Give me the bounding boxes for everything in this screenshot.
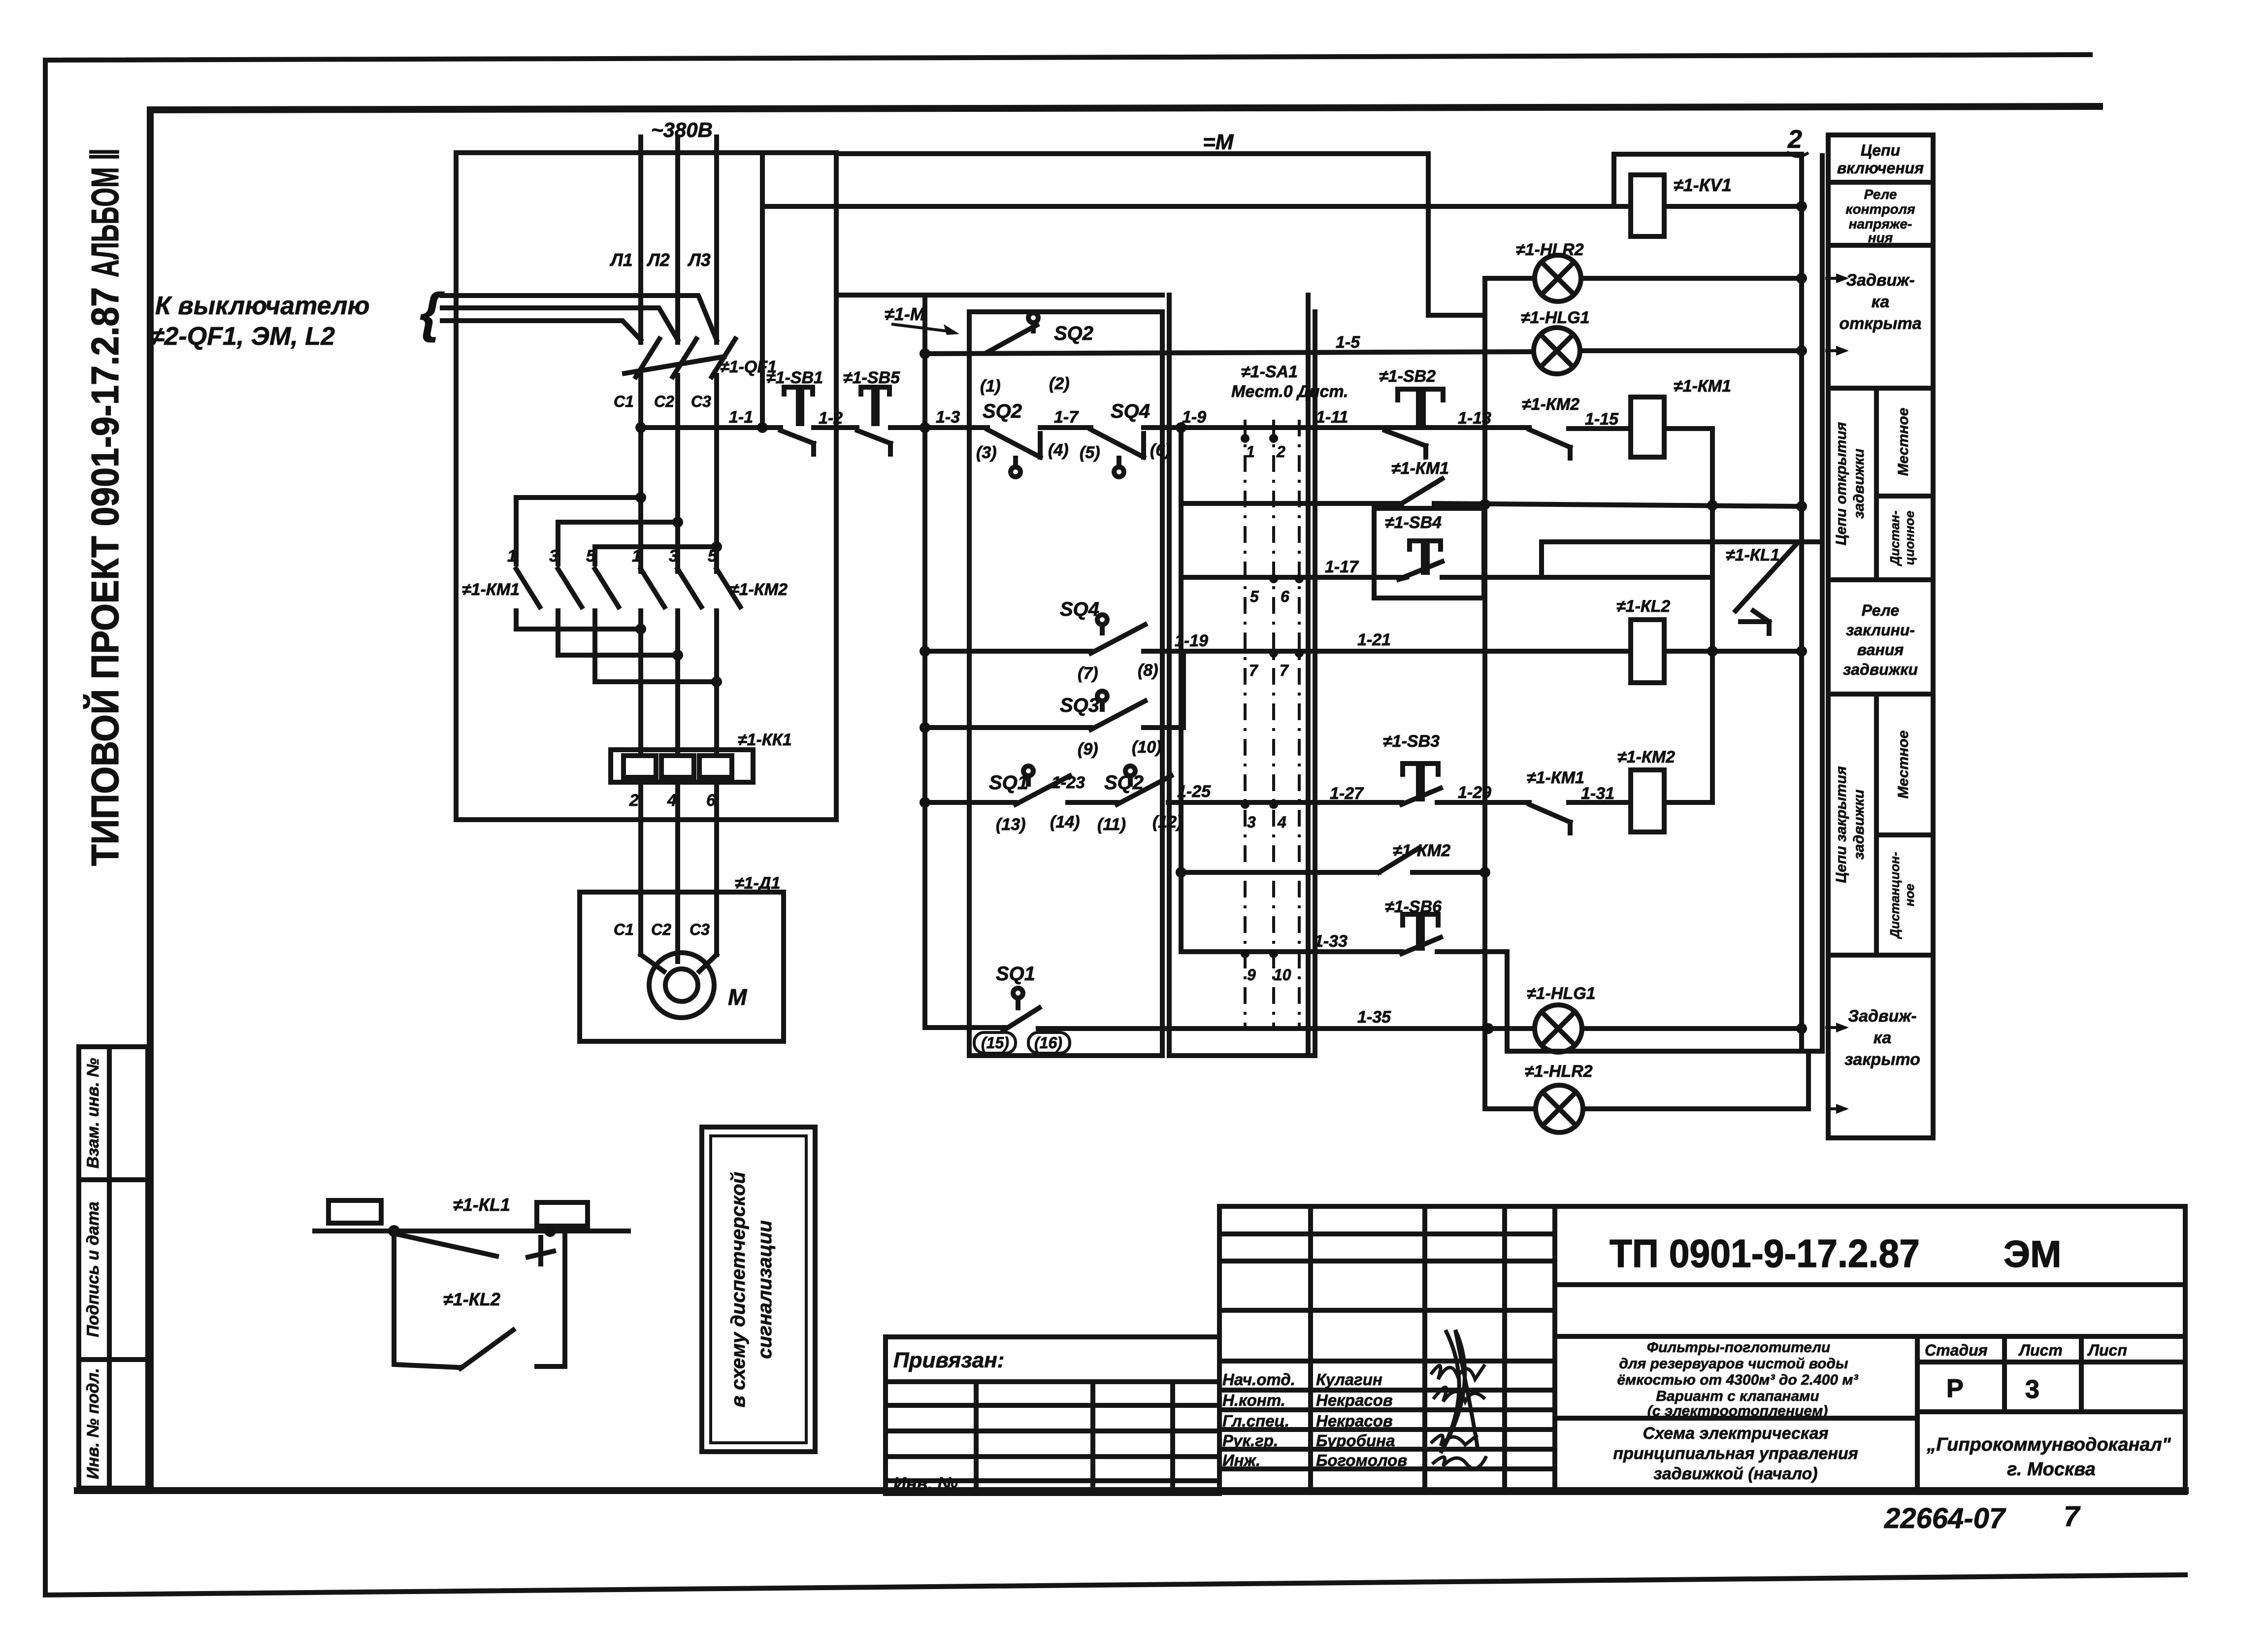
signature row Инж. Богомолов xyxy=(1222,1451,1407,1469)
svg-text:≠1-КМ1: ≠1-КМ1 xyxy=(462,580,520,599)
svg-text:SQ4: SQ4 xyxy=(1060,598,1099,620)
svg-text:≠1-НLG1: ≠1-НLG1 xyxy=(1521,308,1590,327)
page ref 2 xyxy=(1787,125,1808,157)
button SB3 xyxy=(1402,764,1441,804)
label 1-19 xyxy=(1175,632,1208,650)
pin (3) xyxy=(976,443,997,462)
label 1-17 xyxy=(1325,558,1359,576)
label ≠1-HLG1 bottom xyxy=(1527,984,1596,1003)
label С3 motor xyxy=(690,921,710,938)
power cabinet box xyxy=(456,153,836,820)
main rung 1-1 .. 1-13 xyxy=(641,428,1712,429)
project description line 5 xyxy=(1647,1403,1828,1419)
label ≠1-КМ2 right group xyxy=(730,580,788,599)
label ≠1-КМ1 selfhold xyxy=(1391,459,1449,478)
svg-text:Р: Р xyxy=(1946,1374,1964,1403)
svg-text:Реле: Реле xyxy=(1862,601,1899,619)
svg-text:(2): (2) xyxy=(1049,374,1070,393)
mini diagram wire xyxy=(315,1229,628,1233)
svg-text:1-29: 1-29 xyxy=(1458,783,1491,802)
svg-text:5: 5 xyxy=(586,547,596,565)
header Стадия xyxy=(1925,1341,1988,1359)
relay coil KM1 xyxy=(1631,397,1664,457)
svg-text:≠1-КМ2: ≠1-КМ2 xyxy=(1393,841,1450,860)
text К выключателю ≠2-QF1, ЭМ, L2 xyxy=(150,292,370,351)
wire lamp HLR2 top xyxy=(1485,273,1807,284)
selector SA1 dashed line 3 xyxy=(1298,420,1301,1029)
selector SA1 dashed line 2 xyxy=(1272,420,1275,1029)
svg-text:(4): (4) xyxy=(1048,441,1069,460)
svg-text:1-15: 1-15 xyxy=(1585,410,1619,429)
svg-text:Дистан-: Дистан- xyxy=(1887,510,1902,566)
phase Л1 down to thermal relay xyxy=(638,611,643,755)
svg-text:1-13: 1-13 xyxy=(1458,409,1491,428)
left margin stamp boxes column xyxy=(79,1047,148,1488)
svg-text:1: 1 xyxy=(1246,443,1255,461)
svg-text:≠1-SВ3: ≠1-SВ3 xyxy=(1383,732,1440,751)
phase wire Л3 xyxy=(714,137,719,571)
contactor KM2 contact pole 5 xyxy=(708,547,740,607)
mini diagram right terminal box xyxy=(537,1202,588,1226)
project description line 2 xyxy=(1619,1356,1848,1372)
label 1-7 xyxy=(1054,408,1079,427)
riser to KL1 wire xyxy=(1542,542,1822,577)
motor box xyxy=(580,892,784,1041)
label ≠1-HLG1 xyxy=(1521,308,1590,327)
SA1 pins 7 8 xyxy=(1249,649,1304,679)
node dots mini diagram xyxy=(388,1225,556,1237)
svg-text:задвижки: задвижки xyxy=(1851,449,1867,519)
svg-text:6: 6 xyxy=(1281,588,1289,605)
svg-text:≠1-НLG1: ≠1-НLG1 xyxy=(1527,984,1596,1003)
SA1 enclosure right edge xyxy=(1169,295,1315,1056)
pin (6) xyxy=(1150,441,1171,460)
description divider xyxy=(1555,1336,1917,1493)
sheet title line 3 xyxy=(1653,1464,1817,1483)
label ≠1-SB4 xyxy=(1385,513,1442,532)
label ≠1-SB2 xyxy=(1379,367,1436,386)
left margin rotated title: АЛЬБОМ II xyxy=(83,148,127,277)
svg-text:SQ2: SQ2 xyxy=(1104,772,1144,794)
svg-text:Кулагин: Кулагин xyxy=(1316,1370,1382,1389)
rung 1-33 xyxy=(1181,952,1822,1051)
signature row Гл.спец. Некрасов xyxy=(1222,1412,1393,1430)
mini diagram left terminal box xyxy=(329,1200,381,1223)
svg-text:1-27: 1-27 xyxy=(1330,784,1364,803)
label ≠1-KL1 xyxy=(453,1195,510,1215)
doc code ЭМ xyxy=(2004,1233,2061,1275)
svg-text:SQ1: SQ1 xyxy=(996,963,1035,985)
svg-text:1-9: 1-9 xyxy=(1182,408,1206,427)
relay coil KL2 xyxy=(1631,620,1664,683)
lamp HLR2 top xyxy=(1535,255,1581,301)
sheet title line 1 xyxy=(1643,1424,1828,1443)
svg-text:1-23: 1-23 xyxy=(1052,773,1085,792)
motor lead-in diagonals xyxy=(641,955,717,971)
svg-text:контроля: контроля xyxy=(1845,201,1915,217)
svg-text:(13): (13) xyxy=(996,815,1025,834)
interlock contact КМ1 on close rung xyxy=(1529,804,1570,833)
привязан table frame xyxy=(886,1337,1219,1494)
svg-text:включения: включения xyxy=(1837,159,1924,177)
header Лист xyxy=(2018,1341,2063,1359)
svg-text:≠1-SА1: ≠1-SА1 xyxy=(1241,363,1298,381)
svg-text:≠1-М: ≠1-М xyxy=(885,304,925,324)
label ≠1-SB1 xyxy=(766,368,823,387)
column split Цепи открытия задвижки xyxy=(1828,388,1933,580)
svg-text:Цепи закрытия: Цепи закрытия xyxy=(1833,766,1849,883)
button SB6 xyxy=(1402,914,1441,954)
svg-text:Некрасов: Некрасов xyxy=(1316,1412,1393,1430)
pin (13) xyxy=(996,815,1025,834)
svg-text:≠1-SВ6: ≠1-SВ6 xyxy=(1385,898,1442,916)
svg-text:1-2: 1-2 xyxy=(819,409,843,428)
svg-text:≠1-КV1: ≠1-КV1 xyxy=(1674,175,1732,195)
label SQ2 close xyxy=(1104,772,1144,794)
pin (14) xyxy=(1050,813,1080,831)
relay contact KL1 xyxy=(1736,544,1797,633)
svg-text:Вариант с клапанами: Вариант с клапанами xyxy=(1656,1388,1819,1404)
arrow into open box 2 xyxy=(1825,346,1849,356)
svg-text:1-3: 1-3 xyxy=(936,408,960,427)
rung 1-17 to SB4 xyxy=(1181,575,1374,580)
rung 1-19 1-21 xyxy=(920,646,1807,657)
label 1-9 xyxy=(1182,408,1206,427)
label С2 xyxy=(654,393,674,410)
lamp HLG1 bottom xyxy=(1535,1005,1582,1052)
bottom rung 1-35 xyxy=(925,1023,1807,1034)
column cell Местное (close) xyxy=(1876,731,1933,835)
svg-text:SQ4: SQ4 xyxy=(1111,400,1150,422)
column cell Местное (open) xyxy=(1876,408,1933,496)
header Листов xyxy=(2087,1341,2127,1359)
svg-text:„Гипрокоммунводоканал": „Гипрокоммунводоканал" xyxy=(1926,1434,2171,1455)
pin (5) xyxy=(1080,443,1100,462)
limit switch SQ1 contact (13)(14) xyxy=(1016,766,1070,804)
arrow into closed box 2 xyxy=(1826,1104,1849,1114)
wire 599 control box top xyxy=(836,293,1162,298)
limit switch SQ4 contact (7)(8) xyxy=(1091,615,1145,653)
svg-text:1-5: 1-5 xyxy=(1336,333,1360,352)
svg-text:Цепи: Цепи xyxy=(1861,141,1900,159)
label SQ4 xyxy=(1111,400,1150,422)
svg-text:≠1-КМ1: ≠1-КМ1 xyxy=(1674,377,1731,396)
svg-text:SQ3: SQ3 xyxy=(1060,695,1099,716)
label SQ2 xyxy=(983,400,1022,422)
label 6 under KK1 xyxy=(706,791,716,810)
right label column frame xyxy=(1828,135,1933,1138)
pin (4) xyxy=(1048,441,1069,460)
lamp HLG1 top xyxy=(1534,328,1580,374)
handwritten archive number 22664-07 7 xyxy=(1884,1500,2081,1534)
label ≠1-КL1 xyxy=(1726,546,1779,565)
column cell Дистанционное (open) xyxy=(1887,510,1917,566)
label ≠1-КМ2 selfhold xyxy=(1393,841,1450,860)
left control bus vertical xyxy=(922,295,927,1028)
sheet title line 2 xyxy=(1613,1444,1858,1463)
svg-text:SQ2: SQ2 xyxy=(983,400,1022,422)
close rung 1-23..1-31 xyxy=(920,797,1712,808)
thermal relay KK1 xyxy=(611,750,753,782)
label SQ1 bottom xyxy=(996,963,1035,985)
svg-text:Гл.спец.: Гл.спец. xyxy=(1222,1412,1289,1430)
svg-text:Н.конт.: Н.конт. xyxy=(1222,1391,1285,1409)
label С1 motor xyxy=(614,921,634,938)
label SQ3 xyxy=(1060,695,1099,716)
svg-text:С1: С1 xyxy=(614,393,634,410)
svg-text:Л2: Л2 xyxy=(646,250,670,270)
SA1 pins 1 2 xyxy=(1241,434,1285,461)
svg-text:1-33: 1-33 xyxy=(1314,932,1348,951)
button SB5 xyxy=(857,387,890,454)
svg-text:г. Москва: г. Москва xyxy=(2007,1459,2096,1480)
label 1-29 xyxy=(1458,783,1491,802)
svg-text:1-7: 1-7 xyxy=(1054,408,1079,427)
title block left grid columns xyxy=(1311,1206,1555,1493)
svg-text:2: 2 xyxy=(629,791,639,810)
motor M circles xyxy=(649,953,714,1018)
label 1-27 xyxy=(1330,784,1364,803)
svg-text:ка: ка xyxy=(1874,1029,1892,1047)
limit switch SQ2 top contact xyxy=(986,313,1038,353)
label SQ4 rung2 xyxy=(1060,598,1099,620)
label 1-23 xyxy=(1052,773,1085,792)
svg-text:Л3: Л3 xyxy=(687,250,711,270)
label ≠1-QF1 xyxy=(720,358,777,376)
svg-text:2: 2 xyxy=(1276,443,1285,461)
svg-text:≠1-КК1: ≠1-КК1 xyxy=(738,731,792,749)
stamp label Подпись и дата xyxy=(84,1201,102,1337)
motor feeder Л3 xyxy=(714,782,719,955)
svg-text:(15): (15) xyxy=(981,1034,1009,1052)
label ≠1-SB3 xyxy=(1383,732,1440,751)
svg-text:принципиальная управления: принципиальная управления xyxy=(1613,1444,1858,1463)
label ~380В xyxy=(651,118,713,141)
svg-text:≠1-КL1: ≠1-КL1 xyxy=(453,1195,510,1215)
stamp label Взам. инв. № xyxy=(84,1058,102,1169)
circuit breaker QF1 contacts xyxy=(625,339,735,377)
signature row Н.конт. Некрасов xyxy=(1222,1391,1393,1409)
column box Задвижка открыта xyxy=(1828,271,1933,388)
label 1-1 xyxy=(729,408,753,427)
stop button SB2 xyxy=(1385,389,1443,457)
svg-text:Инв. № подл.: Инв. № подл. xyxy=(84,1368,102,1479)
svg-text:(6): (6) xyxy=(1150,441,1171,460)
column box Цепи включения xyxy=(1828,141,1933,182)
label 1-15 xyxy=(1585,410,1619,429)
label ≠1-КМ2 interlock xyxy=(1522,395,1579,414)
label ≠1-SA1 xyxy=(1241,363,1298,381)
svg-text:≠1-SВ5: ≠1-SВ5 xyxy=(843,368,900,387)
pin (16) xyxy=(1028,1032,1070,1053)
svg-text:открыта: открыта xyxy=(1839,314,1921,333)
label 1-33 xyxy=(1314,932,1348,951)
svg-text:~380В: ~380В xyxy=(651,118,713,141)
svg-text:Задвиж-: Задвиж- xyxy=(1846,271,1914,290)
relay coil KM2 xyxy=(1631,770,1664,832)
selfhold rung 1-?(КМ1) xyxy=(1181,499,1807,512)
limit switch SQ2 contact (3)(4) xyxy=(987,430,1040,477)
svg-text:2: 2 xyxy=(1787,125,1802,154)
column cell Дистанционное (close) xyxy=(1887,852,1917,939)
svg-text:Некрасов: Некрасов xyxy=(1316,1391,1393,1409)
svg-text:3: 3 xyxy=(2025,1375,2039,1404)
node on phase Л1 at control tap xyxy=(635,422,646,433)
pin (8) xyxy=(1138,661,1158,680)
label ≠1-КМ2 coil xyxy=(1617,748,1675,766)
label ≠1-SB5 xyxy=(843,368,900,387)
svg-text:ное: ное xyxy=(1902,884,1917,906)
svg-text:Лист: Лист xyxy=(2018,1341,2063,1359)
lamp branch vertical xyxy=(1482,278,1487,1109)
relay coil KV1 xyxy=(1631,175,1664,236)
svg-text:задвижки: задвижки xyxy=(1851,790,1867,860)
svg-text:для резервуаров чистой воды: для резервуаров чистой воды xyxy=(1619,1356,1848,1372)
svg-text:(8): (8) xyxy=(1138,661,1158,680)
wire to breaker mid xyxy=(442,308,678,340)
arrow into open box 1 xyxy=(1825,273,1849,283)
value Р xyxy=(1946,1374,1964,1403)
svg-text:Дистанцион-: Дистанцион- xyxy=(1887,852,1902,939)
label ≠1-КV1 xyxy=(1674,175,1732,195)
right bus 2 xyxy=(1820,156,1825,1051)
svg-text:сигнализации: сигнализации xyxy=(754,1220,776,1359)
svg-text:М: М xyxy=(728,984,748,1010)
svg-text:≠2-QF1, ЭМ, L2: ≠2-QF1, ЭМ, L2 xyxy=(150,322,335,351)
svg-text:Лисп: Лисп xyxy=(2087,1341,2127,1359)
label ≠1-КК1 xyxy=(738,731,792,749)
svg-text:≠1-КМ1: ≠1-КМ1 xyxy=(1391,459,1449,478)
label 2 under KK1 xyxy=(629,791,639,810)
button SB4 xyxy=(1399,541,1442,579)
crossover jumper top 3 xyxy=(595,541,722,564)
svg-text:3: 3 xyxy=(1247,813,1256,831)
svg-text:Реле: Реле xyxy=(1864,187,1897,202)
label ≠1-КМ1 coil xyxy=(1674,377,1731,396)
svg-text:(9): (9) xyxy=(1078,740,1098,759)
label Л2 xyxy=(646,250,670,270)
label С3 xyxy=(691,393,711,410)
svg-text:≠1-SВ4: ≠1-SВ4 xyxy=(1385,513,1442,532)
signature scribbles xyxy=(1431,1330,1486,1468)
label SQ1 close xyxy=(989,772,1028,794)
svg-text:Цепи открытия: Цепи открытия xyxy=(1833,422,1849,545)
svg-text:SQ2: SQ2 xyxy=(1054,323,1093,344)
title block frame xyxy=(1219,1206,2185,1493)
title block left grid rows xyxy=(1219,1234,1555,1469)
label М xyxy=(728,984,748,1010)
column split Цепи закрытия задвижки xyxy=(1828,694,1933,955)
crossover jumper bottom 2 xyxy=(558,650,683,661)
svg-text:ния: ния xyxy=(1868,230,1893,245)
svg-text:(16): (16) xyxy=(1034,1034,1062,1052)
SA1 pins 3 4 xyxy=(1241,800,1286,831)
svg-text:закрыто: закрыто xyxy=(1844,1050,1920,1069)
svg-text:ЭМ: ЭМ xyxy=(2004,1233,2061,1275)
svg-text:≠1-НLR2: ≠1-НLR2 xyxy=(1516,240,1584,259)
crossover jumper bottom 1 xyxy=(516,624,646,634)
column box Задвижка закрыта xyxy=(1844,1007,1920,1069)
svg-text:3: 3 xyxy=(549,547,559,565)
svg-text:Фильтры-поглотители: Фильтры-поглотители xyxy=(1647,1339,1831,1356)
svg-text:(1): (1) xyxy=(980,377,1001,396)
relay contact KL2 mini xyxy=(460,1330,513,1368)
signature row Нач.отд. Кулагин xyxy=(1222,1370,1382,1389)
svg-text:Местное: Местное xyxy=(1895,731,1911,799)
label 1-11 xyxy=(1316,408,1348,427)
wire 1-5 rung xyxy=(920,345,1807,359)
inner drawing frame xyxy=(77,106,2185,1491)
title block full-width rows xyxy=(1555,1285,2185,1336)
label ≠1-КМ1 interlock2 xyxy=(1527,768,1584,787)
svg-text:(10): (10) xyxy=(1132,738,1161,757)
svg-text:Инж.: Инж. xyxy=(1222,1451,1260,1469)
label 1-25 xyxy=(1177,782,1211,801)
label 1-13 xyxy=(1458,409,1491,428)
stamp label Инв. № подл. xyxy=(84,1368,102,1479)
crossover jumper bottom 3 xyxy=(595,676,722,687)
svg-text:≠1-КМ2: ≠1-КМ2 xyxy=(1617,748,1675,766)
svg-text:ционное: ционное xyxy=(1902,511,1917,565)
value 3 xyxy=(2025,1375,2039,1404)
svg-text:С3: С3 xyxy=(691,393,711,410)
wire to breaker bottom xyxy=(442,321,641,340)
svg-text:≠1-КМ2: ≠1-КМ2 xyxy=(1522,395,1579,414)
label SQ2 top xyxy=(1054,323,1093,344)
contactor KM2 contact pole 3 xyxy=(669,547,701,607)
стадия лист cells xyxy=(1917,1336,2185,1412)
svg-text:10: 10 xyxy=(1274,966,1291,984)
svg-text:1: 1 xyxy=(507,547,517,565)
relay contact KL1 mini xyxy=(396,1234,554,1264)
svg-text:7: 7 xyxy=(1280,662,1289,679)
label Привязан: xyxy=(893,1348,1004,1372)
lamp branch wire bottom xyxy=(1488,1051,1808,1109)
svg-text:ёмкостью от 4300м³ до 2.400 м³: ёмкостью от 4300м³ до 2.400 м³ xyxy=(1617,1372,1858,1388)
label ≠1-Д1 xyxy=(735,874,780,893)
svg-text:напряже-: напряже- xyxy=(1849,216,1912,232)
column box Реле заклинивания задвижки xyxy=(1828,601,1933,694)
svg-text:7: 7 xyxy=(1249,662,1259,679)
svg-text:1-21: 1-21 xyxy=(1357,631,1391,649)
svg-text:Подпись и дата: Подпись и дата xyxy=(84,1201,102,1337)
svg-text:задвижки: задвижки xyxy=(1843,661,1918,678)
label ≠1-SB6 xyxy=(1385,898,1442,916)
svg-text:≠1-SВ2: ≠1-SВ2 xyxy=(1379,367,1436,386)
svg-text:Стадия: Стадия xyxy=(1925,1341,1988,1359)
pin (11) xyxy=(1097,815,1126,834)
rung SQ3 xyxy=(920,651,1183,733)
label ≠1-HLR2 bottom xyxy=(1525,1062,1593,1081)
selfhold contact КМ2 xyxy=(1379,848,1419,872)
svg-text:Буробина: Буробина xyxy=(1316,1431,1395,1450)
SA1 pins 9 10 xyxy=(1241,949,1291,984)
svg-text:1-35: 1-35 xyxy=(1357,1008,1391,1027)
label С2 motor xyxy=(651,921,671,938)
lamp HLR2 bottom xyxy=(1536,1085,1583,1132)
svg-text:(12): (12) xyxy=(1152,813,1182,831)
selfhold contact КМ1 xyxy=(1402,479,1442,503)
label ≠1-HLR2 xyxy=(1516,240,1584,259)
svg-text:5: 5 xyxy=(708,547,718,565)
svg-text:1: 1 xyxy=(632,547,641,565)
svg-text:С2: С2 xyxy=(654,393,674,410)
brace { xyxy=(420,282,445,343)
label ≠1-М xyxy=(885,304,925,324)
node dot 1878 rung xyxy=(920,422,930,433)
label ≠1-KL2 xyxy=(443,1289,500,1309)
control tap vertical from =М xyxy=(760,154,765,428)
